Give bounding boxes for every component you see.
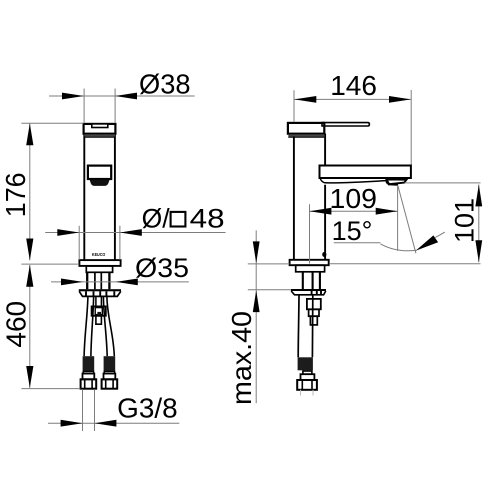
dim 460 bottom ext [21, 388, 80, 390]
dim Ø38 right arrow [115, 93, 137, 100]
dim 15 arc [380, 244, 416, 251]
dim 101 top ext [405, 182, 481, 184]
front handle slot [92, 124, 108, 128]
svg-text:176: 176 [0, 172, 31, 217]
side centerline [309, 204, 311, 263]
side flange trapezoid [291, 291, 326, 295]
side nut step [303, 371, 312, 374]
dim 146 left arrow [294, 96, 316, 103]
front left hose fitting [83, 356, 95, 371]
dim 176 top ext [21, 122, 83, 124]
dim G38 ext lines [83, 389, 95, 431]
front pop-up lower rod [96, 316, 102, 324]
svg-text:KEUCO: KEUCO [92, 252, 106, 257]
svg-text:Ø35: Ø35 [135, 253, 189, 283]
svg-text:15°: 15° [332, 216, 373, 246]
svg-text:G3/8: G3/8 [117, 393, 178, 424]
side hex nut [297, 380, 317, 390]
dim 35 left arrow [61, 279, 83, 286]
dim 176 down arrow [26, 239, 33, 261]
front left supply pipe [84, 297, 94, 356]
dim 109 left arrow [310, 208, 332, 215]
dim 15 leader line [334, 242, 381, 244]
side set screw [322, 252, 326, 257]
dim 15 arrow [416, 235, 439, 250]
dim 15 arc tail [435, 232, 445, 237]
front pop-up dark square [97, 312, 101, 316]
front base plate [79, 260, 120, 266]
svg-text:max.40: max.40 [226, 311, 257, 405]
dim 109 right ext / plumb line [397, 185, 399, 251]
svg-text:48: 48 [190, 203, 225, 233]
front pop-up inner [95, 308, 102, 315]
dim 460 line [29, 265, 31, 388]
dim 101 up arrow [475, 185, 482, 207]
dim 48 ext lines [79, 226, 120, 260]
front joint band [84, 134, 115, 136]
front base collar [86, 266, 112, 272]
dim 15 slanted stream line [398, 185, 416, 253]
side pop-up tip [310, 316, 317, 325]
front flange trapezoid [79, 291, 121, 296]
dim 48 left arrow [57, 229, 79, 236]
front right hose fitting [104, 356, 116, 371]
side hose fitting [298, 357, 313, 370]
dim Ø38 line [49, 95, 195, 97]
dim 101 line [478, 185, 480, 263]
side aerator wedge [387, 179, 407, 184]
side base plate [290, 260, 329, 265]
front left hex nut [81, 379, 97, 388]
dim max40 down arrow [253, 241, 260, 263]
dim 35 line [51, 281, 189, 283]
side aerator lip [385, 180, 390, 186]
front flange top bar [79, 289, 121, 291]
side base collar [296, 265, 325, 272]
side handle cap [288, 123, 324, 134]
dim 109 line [310, 210, 398, 212]
dim max40 bottom ext [248, 289, 291, 291]
svg-text:Ø/: Ø/ [142, 203, 171, 233]
dim max40 up arrow [253, 290, 260, 312]
side nut collar [301, 374, 315, 380]
dim 146 right arrow [389, 96, 411, 103]
front aerator [90, 180, 110, 186]
dim 101 bottom ext [330, 263, 481, 265]
side joint band [288, 134, 324, 136]
side pop-up block [307, 299, 321, 309]
side nut stubs [301, 390, 314, 396]
dim 48 right arrow [120, 229, 142, 236]
dim G38 line [48, 422, 179, 424]
front pop-up rod stems [96, 297, 102, 306]
dim Ø38 left arrow [62, 93, 84, 100]
dim 176 line [29, 123, 31, 260]
side body sides [294, 134, 325, 260]
front flange ticks [86, 291, 114, 296]
dim 176 up arrow [26, 123, 33, 145]
side flange ticks [312, 291, 321, 295]
svg-text:101: 101 [450, 198, 480, 243]
dim max40 top ext [248, 263, 290, 265]
front right hex nut [102, 379, 118, 388]
dim 48 square symbol [171, 212, 186, 227]
dim 176 bottom ext / mounting surface line [21, 263, 79, 265]
side lever bar [322, 123, 369, 126]
svg-text:Ø38: Ø38 [139, 68, 191, 99]
front body sides [84, 134, 115, 261]
dim 101 down arrow [475, 240, 482, 262]
dim 460 down arrow [26, 366, 33, 388]
dim Ø38 ext lines [84, 89, 115, 123]
dim G38 right arrow [95, 420, 117, 427]
side flange top bar [291, 289, 326, 291]
dim 146 ext lines [294, 90, 411, 165]
dim 109 right arrow [376, 208, 398, 215]
dim max40 line [255, 230, 257, 403]
front pop-up block [92, 306, 106, 315]
front left nut collar [83, 371, 93, 373]
side spout underside curve [320, 178, 386, 183]
dim G38 left arrow [61, 420, 83, 427]
side pop-up mid [309, 309, 319, 316]
front right nut collar [104, 371, 114, 373]
svg-text:146: 146 [330, 70, 377, 101]
dim 146 line [294, 98, 411, 100]
front right supply pipe [103, 297, 114, 356]
dim 460 up arrow [26, 265, 33, 287]
side hose pipe [298, 296, 313, 358]
front handle cap [84, 124, 116, 134]
front shank rods [87, 272, 109, 289]
svg-text:109: 109 [330, 183, 378, 214]
side shank rods [303, 272, 320, 289]
side spout block [320, 166, 411, 179]
dim 48 line [45, 232, 225, 234]
svg-text:460: 460 [1, 301, 32, 348]
front spout outlet [88, 166, 111, 179]
dim 35 right arrow [116, 279, 138, 286]
